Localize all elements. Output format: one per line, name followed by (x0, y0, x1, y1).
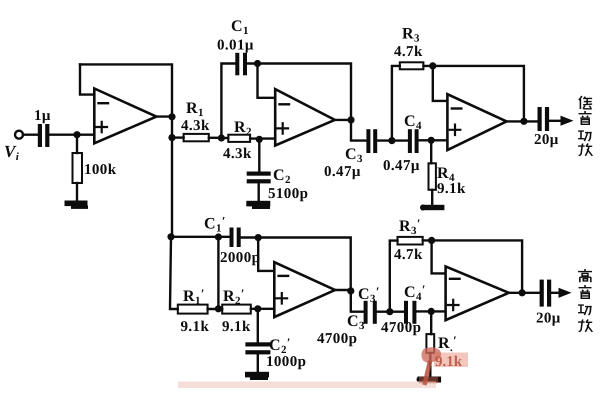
ground under C2p (245, 372, 269, 380)
svg-text:1000p: 1000p (266, 354, 306, 370)
op-amp U4 (274, 262, 335, 317)
char yin2 (579, 285, 592, 298)
wire drop (217, 237, 219, 309)
resistor R3 4.7k (400, 62, 424, 69)
svg-text:9.1k: 9.1k (437, 181, 466, 197)
wire U5 output (509, 292, 540, 294)
resistor R2 4.3k (221, 137, 228, 139)
wire U2 inv stub (258, 64, 276, 98)
watermark salmon box behind 9.1k (434, 353, 468, 368)
capacitor C2 5100p (247, 172, 271, 184)
capacitor C3 0.47u (366, 129, 377, 153)
node C1 inv tap (254, 60, 261, 67)
op-amp U3 (447, 94, 506, 150)
node bus to HP filter (167, 233, 174, 240)
capacitor C4p 4700p (404, 301, 416, 324)
resistor R4p (426, 334, 434, 353)
capacitor C1 0.01u (235, 53, 247, 76)
watermark red blob (421, 347, 441, 362)
svg-text:4700p: 4700p (317, 331, 357, 347)
capacitor C1p 2000p (230, 228, 241, 248)
node R1 tap (168, 134, 175, 141)
label treble amp chinese (578, 269, 592, 332)
svg-text:4.7k: 4.7k (394, 247, 423, 263)
char gong2 (578, 305, 592, 315)
svg-text:0.47μ: 0.47μ (383, 158, 420, 174)
op-amp U5 (446, 266, 509, 320)
wire R4p lead (430, 311, 432, 334)
wire C to U1 plus (50, 133, 95, 135)
char yin (579, 111, 592, 124)
wire main vertical bus (171, 117, 173, 237)
node R1p R2p (215, 305, 222, 312)
wire R1p to node (208, 308, 223, 310)
wire C4 to U3 plus (419, 139, 448, 141)
capacitor C5 20u (538, 107, 550, 131)
wire U5 inv stub (432, 240, 446, 273)
svg-text:2000p: 2000p (220, 250, 260, 266)
wire output arrow treble (551, 292, 560, 294)
watermark pink band (178, 382, 436, 389)
wire 100k to ground (76, 183, 78, 201)
resistor R1p 9.1k (178, 305, 208, 314)
capacitor C3p 4700p (364, 301, 377, 324)
capacitor C4 0.47u (408, 129, 419, 153)
wire U4 inv stub (258, 238, 274, 271)
node 100k tap (73, 131, 80, 138)
node R3 inv tap (429, 62, 436, 69)
wire C3 to C4 (377, 139, 408, 141)
node C1p inv tap (255, 234, 262, 241)
op-amp U2 (275, 89, 335, 145)
node U3 out (520, 118, 527, 125)
wire node up to C1 line (221, 64, 235, 139)
wire C3p to C4p (377, 311, 404, 313)
node R1 R2 (218, 134, 225, 141)
wire C1p to U4 out line (241, 238, 351, 291)
svg-text:4.7k: 4.7k (394, 44, 423, 60)
char di (579, 96, 592, 109)
ground under 100k (65, 201, 89, 209)
wire R3p left leg (390, 241, 398, 312)
svg-text:5100p: 5100p (268, 186, 308, 202)
svg-text:0.01μ: 0.01μ (217, 38, 254, 54)
wire C2 lead (258, 139, 260, 171)
ground under C2 (246, 201, 270, 209)
wire output arrow bass (549, 120, 562, 122)
capacitor C2p 1000p (245, 342, 270, 354)
wire U2 output (335, 119, 351, 121)
node R3p inv tap (428, 237, 435, 244)
label bass amp chinese (578, 96, 592, 156)
char fang2 (578, 320, 592, 332)
wire U3 inv stub (433, 66, 448, 101)
resistor R1 4.3k (184, 134, 209, 141)
svg-text:20μ: 20μ (536, 311, 561, 327)
wire bus down to R1p row (170, 237, 178, 309)
capacitor C6 20u (540, 280, 552, 307)
wire R3p to output (423, 240, 522, 292)
svg-text:1μ: 1μ (34, 108, 51, 124)
watermark red stroke (425, 361, 431, 385)
capacitor 1u input (38, 124, 50, 147)
op-amp U1 (94, 89, 156, 144)
svg-text:4.3k: 4.3k (223, 146, 252, 162)
wire R3 to output (423, 66, 524, 121)
resistor 100k (73, 153, 83, 183)
wire to R1 (172, 136, 184, 138)
wire U4 output (335, 289, 351, 291)
ground under R4 (420, 205, 444, 211)
resistor R4 9.1k (429, 163, 436, 190)
node C4 plus R4 (428, 137, 435, 144)
wire R1 to node (209, 137, 222, 139)
node U5 out (519, 289, 526, 296)
wire U1 feedback top (80, 64, 172, 117)
wire R2p to U4 plus (251, 308, 274, 310)
wire R3 left leg (392, 66, 400, 141)
node C4p plus R4p (428, 308, 435, 315)
wire C1p feedback line (171, 236, 230, 238)
ground under R4p (417, 377, 442, 383)
wire U1 output (156, 115, 172, 117)
node R2p plus C2p (254, 305, 261, 312)
wire U2 out down to C3 (351, 120, 367, 141)
svg-text:4700p: 4700p (381, 320, 421, 336)
wire U1 inv stub (80, 64, 94, 94)
svg-text:100k: 100k (84, 162, 117, 178)
wire U3 output (507, 120, 538, 122)
node C3 C4 R3 (388, 137, 395, 144)
char gong (578, 131, 592, 141)
node C3p C4p R3p (386, 308, 393, 315)
wire C2p lead (257, 309, 259, 343)
svg-text:20μ: 20μ (534, 132, 559, 148)
node U4 out (347, 287, 354, 294)
char fang (578, 144, 592, 156)
resistor R3p 4.7k (398, 237, 423, 245)
svg-text:0.47μ: 0.47μ (324, 164, 361, 180)
wire C4p to U5 plus (416, 310, 445, 312)
node drop to R1p R2p (215, 233, 222, 240)
svg-text:9.1k: 9.1k (222, 319, 251, 335)
node U1 out (168, 113, 175, 120)
wire input to C in (23, 133, 38, 135)
wire C1 to U2 out line (247, 64, 351, 120)
input terminal (15, 131, 23, 139)
wire R4 lead (430, 140, 432, 163)
node R2 plus (256, 136, 263, 143)
resistor R2p 9.1k (222, 305, 251, 314)
svg-text:9.1k: 9.1k (181, 319, 210, 335)
node U2 out (347, 116, 354, 123)
wire 100k upper lead (76, 135, 78, 153)
char gao (578, 269, 592, 282)
svg-text:9.1k: 9.1k (435, 354, 463, 370)
svg-text:4.3k: 4.3k (181, 118, 210, 134)
wire U4 out down to C3p (351, 291, 364, 312)
